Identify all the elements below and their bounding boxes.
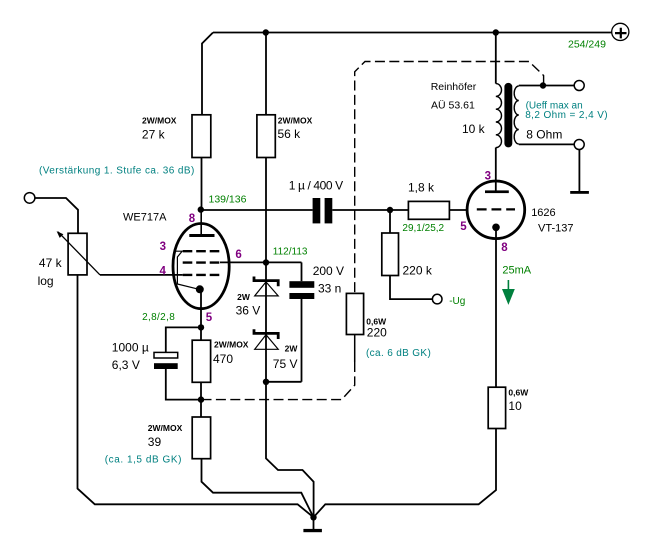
terminal secondary bottom [574, 140, 584, 150]
svg-text:(Verstärkung 1. Stufe ca. 36 d: (Verstärkung 1. Stufe ca. 36 dB) [39, 165, 195, 176]
annotation arrow 25mA [507, 280, 509, 289]
wire coupling cap to grid node [332, 209, 408, 211]
svg-text:Reinhöfer: Reinhöfer [431, 81, 477, 93]
svg-text:47 k: 47 k [39, 256, 63, 270]
svg-text:75 V: 75 V [273, 357, 298, 371]
resistor 220k [382, 233, 399, 276]
svg-text:VT-137: VT-137 [538, 222, 573, 234]
junction dot grid node 220k [387, 207, 393, 213]
dashed feedback line from secondary to 220 resistor [355, 62, 544, 294]
junction dot screen node [263, 259, 269, 265]
wire solid stub below 220 resistor [354, 335, 356, 363]
terminal secondary top [574, 81, 584, 91]
svg-text:220 k: 220 k [403, 263, 433, 277]
svg-text:-Ug: -Ug [449, 296, 465, 307]
tube 1626 envelope [467, 181, 525, 239]
svg-text:5: 5 [460, 221, 467, 233]
wire transformer primary top from rail [495, 33, 497, 84]
capacitor 1u/400V [313, 198, 321, 223]
svg-text:8: 8 [501, 242, 508, 254]
junction dot rail 56k [263, 29, 269, 35]
svg-text:2W: 2W [285, 344, 299, 354]
wire 56k top to rail [265, 33, 267, 115]
wire 470 bottom to 39 top [200, 382, 202, 417]
wire 1626 cathode down to 10 resistor [495, 230, 497, 387]
svg-text:10: 10 [508, 399, 522, 413]
svg-text:33 n: 33 n [318, 281, 341, 295]
svg-text:2W/MOX: 2W/MOX [278, 115, 313, 125]
svg-text:6: 6 [235, 249, 241, 261]
junction dot plate node [198, 206, 204, 212]
wire 33n top lead [301, 262, 303, 281]
svg-text:29,1/25,2: 29,1/25,2 [402, 223, 444, 234]
WE717A plate bar [189, 234, 214, 237]
svg-text:25mA: 25mA [502, 264, 531, 276]
junction dot secondary feedback tap [540, 82, 546, 88]
wire grid node to 220k [389, 210, 391, 233]
WE717A grid row 3 (pin 4 control) [183, 274, 220, 276]
wire cathode node to 470 [200, 327, 202, 340]
wire top supply rail [213, 32, 612, 34]
svg-text:200 V: 200 V [313, 264, 344, 278]
wire secondary bottom to ground [578, 149, 580, 191]
resistor 1.8k [408, 201, 449, 219]
potentiometer wiper arrow [58, 232, 100, 275]
zener diode 75V [254, 329, 278, 339]
tube WE717A envelope [173, 224, 229, 309]
svg-text:36 V: 36 V [236, 303, 261, 317]
svg-text:1,8 k: 1,8 k [408, 181, 435, 195]
capacitor 33n [289, 281, 314, 288]
wire input jack to pot top [35, 198, 78, 233]
capacitor 1000u electrolytic [154, 352, 178, 358]
wire 33n bottom lead [301, 299, 303, 382]
transformer T1 primary winding 10k [496, 84, 502, 148]
svg-text:(ca. 1,5 dB GK): (ca. 1,5 dB GK) [105, 454, 182, 465]
WE717A pin3 internal tie to cathode [174, 251, 199, 289]
WE717A cathode dot [196, 285, 204, 293]
svg-text:1 µ / 400 V: 1 µ / 400 V [289, 179, 343, 193]
transformer T1 core [504, 83, 512, 147]
wire 27k top bend to rail [202, 33, 213, 115]
wire 1.8k to 1626 grid [449, 209, 468, 211]
resistor 27k [192, 115, 211, 158]
svg-text:8,2 Ohm = 2,4 V): 8,2 Ohm = 2,4 V) [525, 110, 608, 121]
resistor 220 feedback [346, 293, 363, 334]
junction dot ground node [310, 514, 316, 520]
ground symbol secondary [570, 191, 589, 194]
resistor 39 [192, 417, 210, 459]
wire ground stub [313, 517, 315, 529]
wire secondary bottom lead [519, 143, 576, 145]
svg-text:WE717A: WE717A [123, 211, 167, 223]
wire zener bottom node horizontal [266, 381, 302, 383]
svg-text:220: 220 [367, 326, 387, 340]
svg-text:39: 39 [148, 435, 162, 449]
transformer T1 secondary winding 8 Ohm [514, 86, 519, 144]
svg-text:(ca. 6 dB GK): (ca. 6 dB GK) [366, 348, 431, 359]
svg-text:10 k: 10 k [462, 122, 486, 136]
wire transformer primary bottom to 1626 plate [495, 148, 497, 192]
svg-text:8: 8 [189, 213, 196, 225]
resistor 470 [192, 340, 210, 382]
ground symbol main [303, 529, 322, 532]
terminal -Ug [432, 294, 442, 304]
1626 plate bar [485, 190, 509, 193]
svg-text:27 k: 27 k [142, 127, 166, 141]
svg-text:3: 3 [160, 241, 166, 253]
svg-text:5: 5 [206, 312, 213, 324]
svg-text:1000 µ: 1000 µ [112, 341, 149, 355]
WE717A grid row 1 (pin 3) [183, 250, 220, 252]
WE717A grid row 2 (pin 6 screen) [183, 261, 220, 263]
wire screen pin6 to 33n [220, 261, 302, 263]
svg-text:2,8/2,8: 2,8/2,8 [142, 312, 175, 323]
wire 39 bottom to ground [202, 459, 314, 518]
wire zener chain down to ground [266, 262, 314, 517]
svg-text:2W/MOX: 2W/MOX [142, 115, 177, 125]
svg-text:2W: 2W [237, 292, 251, 302]
svg-text:112/113: 112/113 [273, 247, 308, 258]
svg-text:8 Ohm: 8 Ohm [526, 127, 562, 141]
wire plate node to coupling cap [202, 209, 313, 211]
svg-text:470: 470 [213, 352, 233, 366]
svg-text:6,3 V: 6,3 V [112, 358, 140, 372]
wire pot wiper to WE717A grid pin4 [100, 274, 183, 276]
wire WE717A cathode pin5 down [200, 292, 202, 327]
dashed feedback line from 220 resistor to cathode node [201, 362, 355, 400]
svg-text:1626: 1626 [531, 207, 555, 219]
svg-text:139/136: 139/136 [209, 194, 247, 206]
svg-text:log: log [38, 274, 54, 288]
terminal input jack [24, 193, 35, 204]
zener diode 36V [254, 277, 278, 287]
svg-text:AÜ 53.61: AÜ 53.61 [431, 99, 475, 111]
wire pot bottom to ground [78, 275, 314, 517]
svg-text:254/249: 254/249 [568, 39, 606, 51]
wire 10 resistor bottom to ground [314, 429, 497, 518]
1626 grid dashed [477, 208, 515, 210]
svg-text:4: 4 [160, 265, 167, 277]
junction dot cathode node [198, 324, 204, 330]
junction dot zener bottom node [263, 379, 269, 385]
svg-text:2W/MOX: 2W/MOX [148, 423, 183, 433]
wire secondary top lead [519, 85, 576, 87]
svg-text:3: 3 [485, 170, 491, 182]
wire 27k bottom to plate node [201, 158, 203, 211]
junction dot feedback cathode node [198, 396, 204, 402]
wire 56k bottom to screen node [265, 158, 267, 263]
1626 cathode dot [492, 224, 500, 232]
svg-text:56 k: 56 k [278, 127, 302, 141]
potentiometer 47k log body [68, 233, 87, 275]
wire cathode node to 1000u cap branch [166, 327, 201, 399]
wire 220k bottom to -Ug terminal [390, 276, 433, 300]
junction dot rail transformer [493, 29, 499, 35]
resistor 56k [257, 115, 275, 158]
svg-text:2W/MOX: 2W/MOX [214, 340, 249, 350]
terminal B+ supply [612, 23, 629, 40]
WE717A plate wire [200, 212, 202, 235]
resistor 10 cathode 1626 [488, 387, 505, 428]
svg-text:0,6W: 0,6W [508, 388, 529, 398]
